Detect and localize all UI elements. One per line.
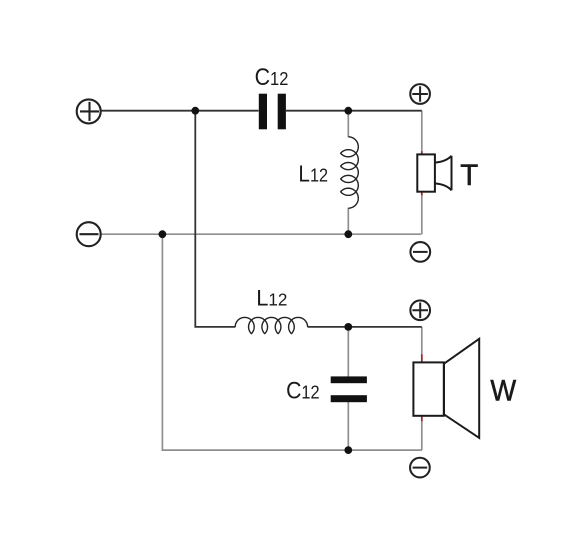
svg-text:L12: L12	[256, 286, 287, 311]
svg-text:W: W	[490, 375, 516, 408]
svg-text:T: T	[460, 159, 478, 192]
svg-text:C12: C12	[255, 64, 289, 91]
svg-text:C12: C12	[286, 377, 320, 404]
